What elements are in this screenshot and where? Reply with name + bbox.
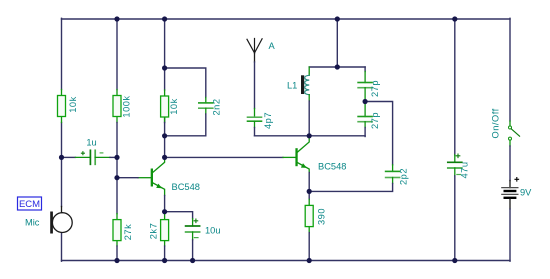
wire left rail lower: [61, 233, 63, 262]
svg-text:Mic: Mic: [25, 218, 40, 228]
svg-text:On/Off: On/Off: [491, 108, 501, 138]
resistor R3 10k: [161, 68, 179, 123]
wire V2 upper: [116, 18, 118, 89]
svg-text:27p: 27p: [370, 112, 380, 129]
resistor R5 2k7: [148, 212, 168, 246]
svg-text:2p2: 2p2: [399, 168, 409, 185]
capacitor C5 27p upper: [358, 67, 380, 102]
wire left rail mic top stub: [61, 207, 63, 213]
wire top rail: [62, 18, 511, 20]
svg-text:10k: 10k: [68, 96, 78, 113]
microphone ECM Mic: [25, 212, 72, 234]
node top rail 47u: [452, 16, 457, 21]
capacitor C2 2n2: [165, 68, 222, 136]
antenna A: [247, 39, 276, 63]
capacitor C8 47u electrolytic: [448, 154, 470, 179]
wire Q1 emitter down: [164, 196, 166, 212]
wire 2k7 lower: [164, 246, 166, 261]
node 2n2 top: [162, 65, 167, 70]
node Q1 emitter junction: [162, 209, 167, 214]
resistor R4 27k: [113, 214, 133, 246]
wire 390 lower: [308, 233, 310, 262]
capacitor C4 10u electrolytic: [165, 212, 221, 262]
wire Q2 emitter down: [308, 173, 310, 192]
svg-text:A: A: [269, 41, 276, 51]
wire right rail lower: [509, 209, 511, 261]
battery 9V: [502, 178, 532, 210]
node left rail 1u: [59, 155, 64, 160]
svg-text:2k7: 2k7: [148, 223, 158, 240]
svg-text:47u: 47u: [460, 161, 470, 178]
wire V3 to collector node: [164, 123, 166, 158]
wire bottom rail: [62, 260, 511, 262]
transistor Q2 BC548: [283, 136, 346, 172]
switch On/Off: [491, 108, 520, 146]
wire antenna down: [254, 62, 256, 109]
capacitor C3 4p7: [248, 109, 274, 136]
node top rail tank: [335, 16, 340, 21]
wire Q1 collector to Q2 base: [165, 156, 283, 158]
resistor R6 390: [305, 191, 326, 232]
svg-text:BC548: BC548: [172, 182, 200, 192]
wire tank bottom: [255, 135, 366, 137]
svg-text:L1: L1: [287, 81, 297, 91]
node divider 1u: [114, 155, 119, 160]
label ECM box: [18, 197, 42, 210]
wire V3 top: [164, 18, 166, 68]
wire right rail upper: [509, 18, 511, 121]
svg-text:10k: 10k: [169, 98, 179, 115]
svg-text:BC548: BC548: [318, 162, 346, 172]
node bottom rail 2k7: [162, 258, 167, 263]
transistor Q1 BC548: [138, 158, 200, 196]
svg-text:2n2: 2n2: [212, 98, 222, 115]
wire left rail mid: [61, 123, 63, 207]
svg-text:390: 390: [317, 208, 327, 225]
node Q2 emitter junction: [307, 189, 312, 194]
node tank bottom collector: [307, 133, 312, 138]
wire V2 lower: [116, 246, 118, 261]
node top rail V3: [162, 16, 167, 21]
svg-text:27p: 27p: [370, 80, 380, 97]
node 27p midpoint: [363, 99, 368, 104]
svg-text:1u: 1u: [86, 137, 96, 147]
node bottom rail 27k: [114, 258, 119, 263]
node bottom rail 390: [307, 258, 312, 263]
wire V2 mid: [116, 123, 118, 214]
wire 47u branch upper: [454, 18, 456, 155]
svg-text:4p7: 4p7: [263, 112, 273, 129]
svg-text:27k: 27k: [123, 224, 133, 241]
inductor L1: [287, 67, 309, 136]
wire Q1 base from divider: [117, 177, 138, 179]
capacitor C6 27p lower: [358, 102, 380, 137]
node Q1 collector: [162, 155, 167, 160]
capacitor C1 1u electrolytic: [62, 137, 118, 164]
node bottom rail 10u: [190, 258, 195, 263]
node divider base: [114, 175, 119, 180]
resistor R1 10k: [58, 90, 79, 123]
svg-text:10u: 10u: [205, 226, 221, 236]
node 2n2 bottom: [162, 133, 167, 138]
wire 47u branch lower: [454, 176, 456, 261]
wire top rail to tank: [336, 18, 338, 67]
svg-text:9V: 9V: [520, 188, 532, 198]
wire right rail mid: [509, 146, 511, 181]
node top rail V2: [114, 16, 119, 21]
svg-text:100k: 100k: [122, 95, 132, 117]
wire tank top: [309, 66, 365, 68]
node tank top: [335, 64, 340, 69]
wire left rail upper: [61, 18, 63, 89]
node bottom rail 47u: [452, 258, 457, 263]
capacitor C7 2p2: [309, 102, 408, 192]
resistor R2 100k: [113, 90, 132, 123]
svg-text:ECM: ECM: [19, 199, 40, 210]
